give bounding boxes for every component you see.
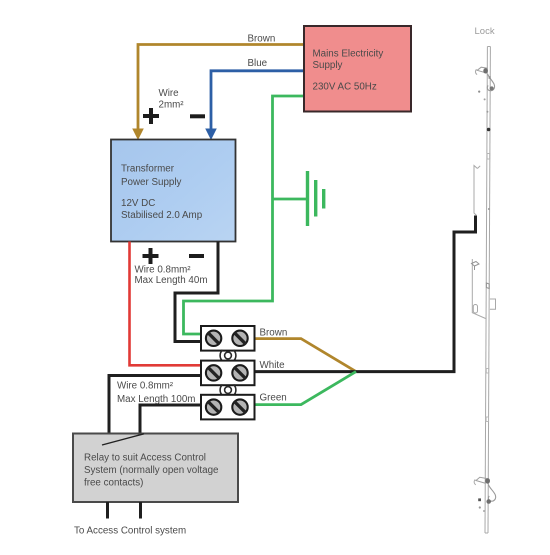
svg-text:Wire 0.8mm²: Wire 0.8mm²	[135, 265, 192, 276]
svg-text:Brown: Brown	[260, 328, 288, 339]
svg-text:White: White	[260, 360, 286, 371]
svg-text:Max Length 40m: Max Length 40m	[135, 275, 208, 286]
terminal block row 1 (Brown)	[201, 326, 255, 351]
wire: black 12V- from transformer to terminal row 1	[175, 242, 218, 342]
wire: black from terminal row 2 to relay	[109, 376, 201, 434]
terminal block row 2 (White)	[201, 361, 255, 386]
connector (o) between rows 2-3	[220, 385, 236, 396]
lock: multipoint lock strip	[472, 47, 495, 534]
wire: brown from terminal row 1 to lock cable junction	[255, 339, 357, 372]
arrowhead brown into transformer +	[132, 129, 144, 141]
plus sign (bottom, transformer 12V output)	[143, 248, 159, 264]
wire: green earth from mains down to terminal block row 1	[184, 96, 305, 334]
svg-text:To Access Control system: To Access Control system	[74, 526, 186, 537]
svg-text:Mains Electricity: Mains Electricity	[313, 49, 384, 60]
svg-text:Green: Green	[260, 393, 287, 404]
svg-text:Brown: Brown	[248, 34, 276, 45]
svg-text:System (normally open voltage: System (normally open voltage	[84, 465, 219, 476]
svg-text:Relay to suit Access Control: Relay to suit Access Control	[84, 453, 206, 464]
strip long edges	[485, 47, 487, 534]
svg-text:12V DC: 12V DC	[121, 198, 155, 209]
svg-text:Supply: Supply	[313, 60, 343, 71]
wire: green from terminal row 3 to lock cable junction	[255, 372, 357, 405]
terminal block row 3 (Green)	[201, 395, 255, 420]
svg-text:Wire 0.8mm²: Wire 0.8mm²	[117, 381, 174, 392]
box: transformer power supply	[111, 140, 236, 242]
svg-text:2mm²: 2mm²	[159, 100, 185, 111]
lock: small latch mark	[487, 154, 490, 160]
minus sign (bottom, transformer 12V output)	[189, 254, 204, 258]
svg-text:Transformer: Transformer	[121, 164, 175, 175]
lock: dot near plate	[488, 208, 490, 210]
lock: keep marks mid	[472, 262, 490, 289]
svg-text:Stabilised 2.0 Amp: Stabilised 2.0 Amp	[121, 210, 203, 221]
svg-text:Lock: Lock	[475, 26, 495, 37]
svg-text:Blue: Blue	[248, 58, 268, 69]
minus sign (top, transformer input)	[190, 114, 205, 118]
connector (o) between rows 1-2	[220, 350, 236, 361]
lock: upper hook bolt	[475, 67, 494, 100]
svg-text:Max Length 100m: Max Length 100m	[117, 394, 195, 405]
arrowhead blue into transformer -	[205, 129, 217, 141]
svg-text:Wire: Wire	[159, 88, 180, 99]
ground symbol (earth, bars pointing right)	[273, 198, 307, 201]
wire: white (black drawn) from terminal row 2 to lock	[255, 216, 476, 372]
wire: black from terminal row 3 to relay	[140, 405, 201, 434]
box: mains electricity supply	[304, 26, 411, 112]
upper faceplate	[474, 166, 477, 216]
svg-text:Power Supply: Power Supply	[121, 177, 182, 188]
wire: relay output left	[106, 502, 109, 519]
wire: brown mains live, horizontal then down to transformer	[138, 45, 304, 130]
plus sign (top, transformer input)	[143, 108, 159, 124]
box: relay	[73, 434, 238, 503]
lock: screw dot upper	[487, 128, 491, 132]
relay switch contact (diagonal)	[102, 434, 144, 445]
wire: relay output right	[139, 502, 142, 519]
wire: red 12V+ from transformer to terminal row 2	[130, 242, 202, 366]
svg-text:free contacts): free contacts)	[84, 478, 143, 489]
lock: lower hook bolt	[474, 477, 495, 512]
lock: faint dot	[486, 111, 488, 113]
lock: small tick marks	[486, 369, 488, 374]
wire: blue mains neutral, horizontal then down to transformer	[211, 71, 304, 130]
lower lock body	[472, 259, 485, 319]
svg-text:230V AC 50Hz: 230V AC 50Hz	[313, 82, 377, 93]
